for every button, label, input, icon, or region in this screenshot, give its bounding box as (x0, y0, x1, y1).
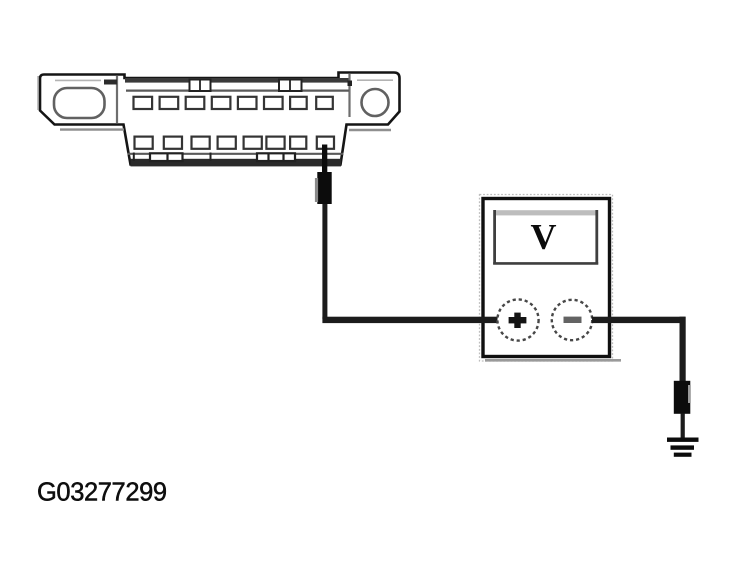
bottom pin row (pins 9-16) (135, 137, 335, 149)
connector bottom rim line (128, 153, 344, 155)
connector J1 (data link connector) body outline (38, 73, 399, 165)
connector bottom key tab A (150, 153, 183, 161)
wire: bend to voltmeter + terminal (horizontal) (322, 317, 499, 323)
connector bottom dark band (131, 159, 342, 167)
negative terminal (-) (552, 300, 592, 340)
bottom rim tick marks (134, 153, 211, 162)
svg-text:G03277299: G03277299 (37, 479, 167, 507)
ground symbol (667, 438, 699, 457)
left mounting ear slot (oval hole) (54, 88, 105, 118)
right mounting ear hole (round) (362, 89, 389, 116)
positive terminal (+) (497, 299, 538, 340)
test probe P1 body (315, 172, 332, 204)
voltmeter display window (493, 210, 598, 265)
wire: voltmeter - terminal to right bend (horizontal) (592, 317, 686, 323)
svg-text:V: V (531, 216, 557, 256)
connector top key tab A (190, 80, 211, 92)
test probe P2 body (674, 381, 691, 414)
voltmeter body (480, 195, 622, 362)
connector bottom key tab B (257, 153, 295, 161)
wire: probe P2 to ground (681, 414, 685, 439)
wire: probe P1 down to bend (vertical) (322, 204, 327, 319)
connector top key tab B (279, 80, 302, 92)
top pin row (pins 1-8) (134, 97, 333, 109)
probe tip P1 in pin 16 cavity (322, 145, 327, 174)
wire: right bend down to probe P2 (vertical) (680, 317, 686, 382)
